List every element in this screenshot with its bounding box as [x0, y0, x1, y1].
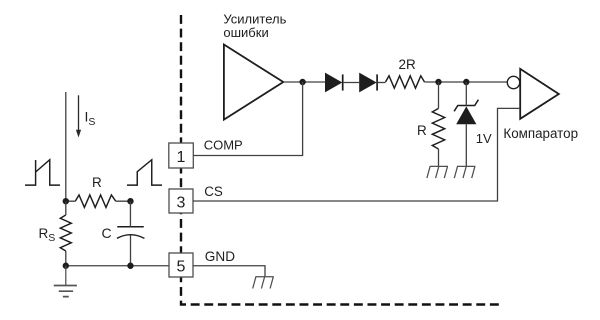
wire: diode to 2R	[377, 82, 385, 84]
ground (chassis) symbol near GND pin	[253, 277, 274, 289]
wire: GND pin to chassis ground	[193, 266, 265, 277]
ground (earth) symbol bottom-left	[54, 266, 77, 297]
svg-text:COMP: COMP	[204, 137, 243, 152]
wire: between diodes	[343, 82, 360, 84]
wire: ground row left	[66, 265, 169, 267]
wire: R divider connections	[438, 82, 440, 166]
wire: dot1 to R and R to dot2	[66, 200, 131, 202]
wire: op-amp output	[283, 81, 325, 83]
diode D2	[359, 73, 377, 93]
comparator input bubble	[507, 76, 519, 88]
svg-text:1: 1	[177, 149, 186, 166]
wire: 2R to comparator input	[425, 81, 508, 83]
svg-text:IS: IS	[85, 109, 96, 128]
resistor 2R	[386, 76, 425, 88]
wire: left sense line vertical	[65, 92, 67, 201]
node junction dot zener-top	[463, 79, 469, 85]
node junction dot R-top	[435, 79, 441, 85]
node junction dot cap-top	[127, 198, 133, 204]
waveform pulse filtered (right)	[127, 160, 162, 185]
current arrow Is	[76, 95, 81, 137]
svg-text:ошибки: ошибки	[223, 25, 268, 40]
wire: zener connections	[465, 82, 467, 166]
waveform pulse with spike (left)	[25, 160, 60, 185]
ground (chassis) under R divider	[427, 166, 448, 178]
wire: cap connections	[129, 201, 131, 266]
svg-text:RS: RS	[39, 226, 56, 244]
svg-text:1V: 1V	[476, 131, 492, 146]
resistor R (vertical, divider)	[432, 108, 444, 149]
ground (chassis) under zener	[454, 166, 475, 178]
diode D1	[325, 73, 343, 93]
svg-text:3: 3	[177, 194, 186, 211]
node junction dot op-amp output	[299, 79, 305, 85]
svg-text:Компаратор: Компаратор	[503, 126, 578, 141]
pin box 3	[169, 189, 193, 213]
wire: Rs connections	[65, 201, 67, 266]
pin box 5	[169, 253, 193, 277]
wire: CS to comparator lower input	[193, 108, 520, 201]
op-amp error amplifier	[224, 45, 283, 120]
svg-text:CS: CS	[204, 184, 223, 199]
wire: COMP feedback	[193, 82, 302, 156]
comparator triangle	[520, 69, 559, 119]
svg-text:GND: GND	[205, 249, 235, 264]
node junction dot gnd-left	[63, 263, 69, 269]
svg-text:2R: 2R	[399, 57, 417, 72]
zener diode 1V	[454, 100, 478, 125]
resistor Rs (vertical)	[60, 215, 71, 251]
node junction dot cap-bottom	[127, 263, 133, 269]
pin box 1	[169, 143, 194, 168]
svg-text:R: R	[92, 175, 102, 190]
svg-text:C: C	[102, 225, 112, 241]
svg-text:R: R	[417, 123, 427, 138]
svg-text:5: 5	[177, 258, 186, 275]
dashed IC boundary	[181, 15, 502, 305]
resistor R (horizontal)	[75, 195, 116, 207]
node junction dot left-top	[63, 198, 69, 204]
capacitor C	[117, 227, 144, 239]
